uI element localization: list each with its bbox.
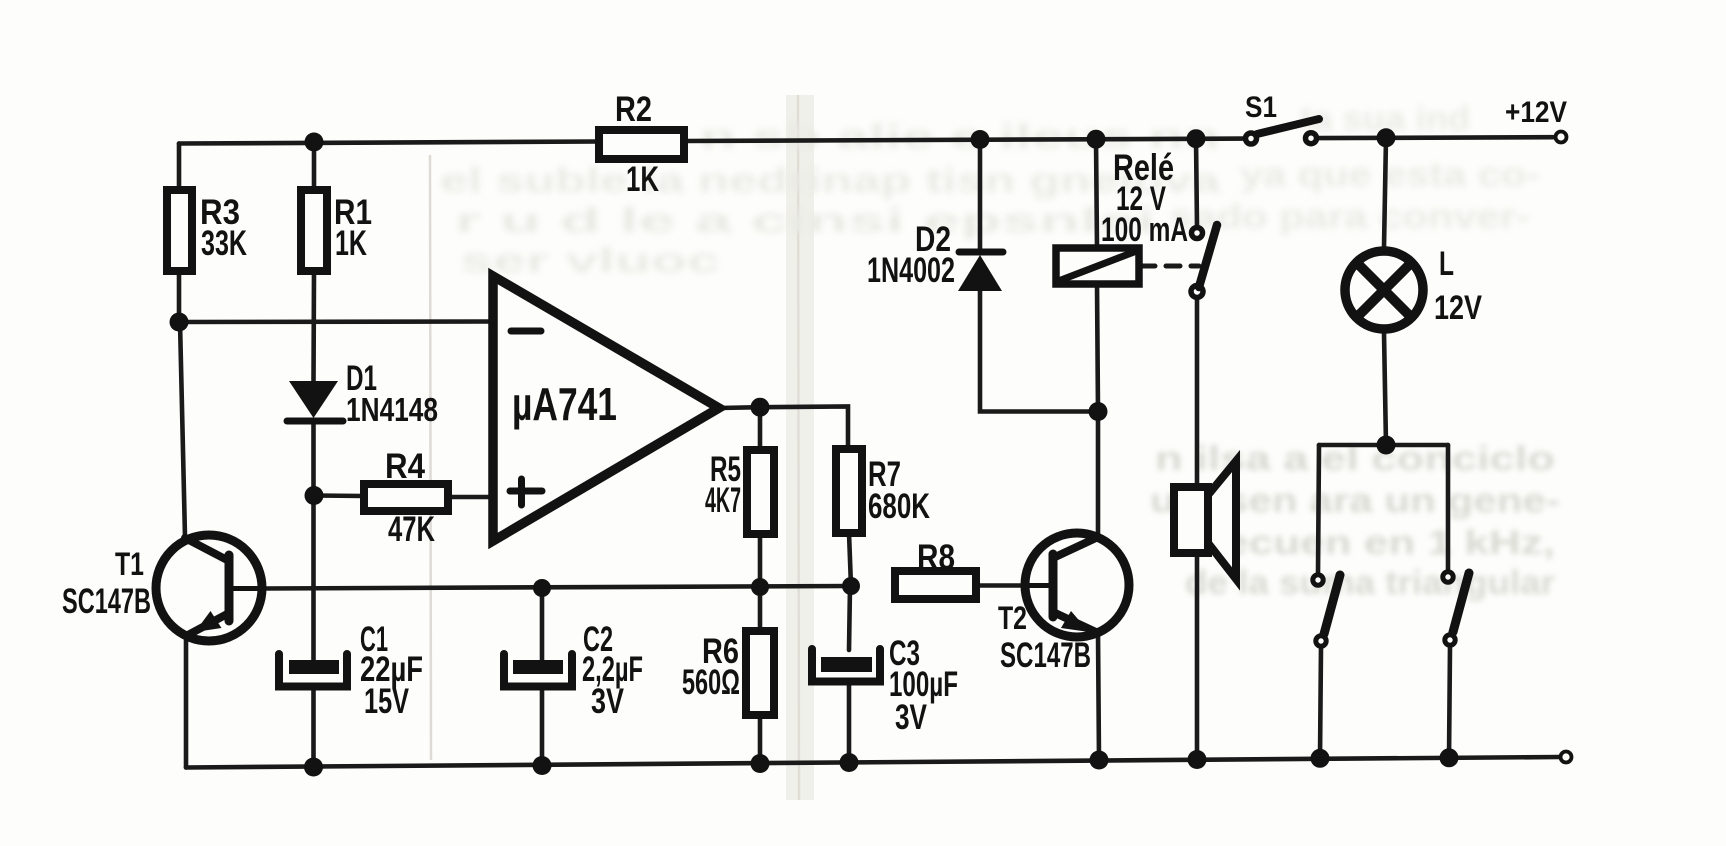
wire inverting input (junction to op-amp) — [179, 319, 493, 324]
switch S1 — [1246, 119, 1320, 144]
resistor R3 — [167, 190, 192, 271]
wire R6 bottom to bottom rail — [758, 715, 763, 764]
svg-text:o ecuen en 1 kHz,: o ecuen en 1 kHz, — [1185, 524, 1555, 562]
wire top rail right segment (S1 right contact to +12V terminal) — [1317, 135, 1553, 141]
junction dot inverting node — [170, 313, 189, 332]
svg-text:15V: 15V — [364, 682, 409, 721]
junction dot bottom rail C3 — [840, 753, 859, 772]
junction dot bottom rail left switch — [1311, 749, 1330, 768]
wire op-amp output to node — [719, 405, 760, 410]
svg-text:T2: T2 — [998, 600, 1027, 636]
wire C3 top lead — [849, 586, 850, 650]
wire left branch vertical (top rail to R3) — [177, 144, 182, 191]
svg-text:+12V: +12V — [1505, 96, 1567, 129]
svg-text:µA741: µA741 — [512, 378, 617, 430]
wire left bottom switch lower lead — [1320, 647, 1321, 758]
svg-text:r u d le a cinsi epsnlei: r u d le a cinsi epsnlei — [455, 202, 1155, 240]
svg-text:de la suma triangular: de la suma triangular — [1185, 564, 1555, 602]
transistor T2 — [1025, 533, 1129, 637]
svg-text:T1: T1 — [115, 546, 144, 582]
wire junction down to T2 collector — [1096, 412, 1101, 538]
bottom switch left — [1313, 575, 1340, 646]
svg-text:47K: 47K — [388, 510, 435, 549]
junction dot op-amp output — [751, 398, 770, 417]
wire R1 bottom to D1 anode — [311, 271, 316, 382]
wire D1 cathode to R4 junction then down to C1 — [311, 423, 316, 660]
junction dot top rail contact — [1187, 129, 1206, 148]
svg-text:560Ω: 560Ω — [682, 663, 740, 702]
capacitor C1 — [279, 654, 347, 687]
wire R5 bottom to base-line junction — [758, 534, 763, 587]
wire right bottom switch lower lead — [1449, 646, 1450, 758]
capacitor C2 — [504, 654, 572, 687]
svg-text:1K: 1K — [335, 224, 367, 263]
junction dot R4 node — [305, 486, 324, 505]
svg-text:sado para conver-: sado para conver- — [1170, 198, 1530, 236]
wire top rail left segment — [179, 142, 599, 144]
wire output node down to R5 — [758, 407, 763, 450]
wire left bottom switch upper lead — [1318, 445, 1319, 574]
resistor R2 — [599, 130, 684, 159]
wire relay coil top (top rail down) — [1096, 139, 1097, 248]
svg-text:S1: S1 — [1245, 91, 1277, 124]
svg-text:R2: R2 — [615, 90, 652, 129]
wire C1 bottom to bottom rail — [311, 687, 316, 767]
wire R4 left lead — [314, 493, 364, 498]
wire lamp branch (top rail to lamp) — [1384, 138, 1386, 247]
fold line right — [786, 95, 814, 800]
svg-text:L: L — [1439, 245, 1454, 283]
wire T2 emitter down to bottom rail — [1098, 633, 1099, 760]
wire left vertical down to T1 collector — [180, 322, 185, 537]
junction dot top rail R1 — [305, 133, 324, 152]
svg-text:33K: 33K — [201, 224, 247, 263]
svg-text:100 mA: 100 mA — [1101, 211, 1188, 249]
wire lamp bottom to switch crossbar — [1384, 333, 1386, 445]
svg-text:ya que esta co-: ya que esta co- — [1240, 156, 1540, 194]
wire C2 bottom to bottom rail — [540, 687, 545, 766]
wire R8 right lead to T2 base — [976, 583, 1053, 588]
wire relay contact top (top rail to contact) — [1196, 139, 1197, 227]
svg-text:SC147B: SC147B — [1000, 636, 1091, 675]
junction dot base line R7/R8/C3 — [842, 577, 860, 595]
wire R3 bottom to inverting-node junction — [177, 271, 182, 322]
junction dot top rail relay — [1087, 130, 1106, 149]
wire switch crossbar — [1319, 443, 1448, 448]
resistor R8 — [895, 571, 976, 599]
diode D2 — [958, 252, 1003, 291]
junction dot base line C2 — [533, 579, 551, 597]
junction dot top rail lamp — [1377, 128, 1396, 147]
svg-text:12V: 12V — [1434, 289, 1482, 327]
svg-text:1K: 1K — [626, 160, 659, 199]
lamp L — [1345, 251, 1423, 329]
wire top rail middle segment (R2 right to S1 left contact) — [684, 139, 1245, 141]
resistor R5 — [747, 450, 774, 534]
diode D1 — [287, 381, 343, 421]
junction dot bottom rail R6 — [751, 754, 770, 773]
svg-text:1N4002: 1N4002 — [867, 251, 955, 290]
speaker — [1174, 461, 1236, 579]
resistor R6 — [746, 631, 774, 715]
wire bottom rail — [186, 757, 1559, 768]
op-amp U1 uA741 — [493, 276, 719, 541]
wire output node across to R7 top corner — [760, 407, 848, 450]
junction dot bottom rail C1 — [304, 758, 323, 777]
junction dot base line R5/R6 — [751, 578, 769, 596]
wire D2 anode down then right to relay/T2 junction — [980, 291, 1098, 412]
transistor T1 — [156, 535, 262, 641]
resistor R1 — [301, 190, 327, 271]
bottom right terminal — [1561, 752, 1572, 763]
wire C2 top (base line junction down) — [540, 588, 545, 660]
wire C3 bottom to bottom rail — [847, 683, 852, 763]
junction dot lamp crossbar — [1377, 436, 1396, 455]
junction dot bottom rail C2 — [533, 756, 552, 775]
wire relay coil bottom to junction — [1097, 284, 1098, 412]
wire T1 base line across to R8 junction — [262, 586, 851, 589]
wire relay contact dashed link — [1141, 264, 1199, 269]
junction dot D2/relay/T2 — [1089, 402, 1108, 421]
fold line left — [430, 155, 431, 760]
wire D2 top (top rail down to cathode) — [978, 140, 983, 253]
junction dot bottom rail T2 — [1090, 751, 1109, 770]
wire right bottom switch upper lead — [1446, 445, 1451, 571]
wire R4 right lead to op-amp plus input — [448, 495, 493, 500]
svg-text:1N4148: 1N4148 — [346, 391, 438, 428]
junction dot top rail D2 — [971, 130, 990, 149]
resistor R7 — [836, 449, 862, 533]
svg-text:3V: 3V — [591, 682, 625, 721]
wire R7 bottom to R8 junction — [849, 533, 851, 586]
svg-text:R4: R4 — [385, 447, 425, 486]
svg-text:680K: 680K — [868, 487, 930, 526]
bottom switch right — [1443, 572, 1469, 645]
svg-text:3V: 3V — [895, 698, 927, 737]
capacitor C3 — [812, 649, 880, 682]
junction dot bottom rail speaker — [1188, 750, 1207, 769]
wire T1 emitter down to bottom rail corner — [184, 637, 189, 768]
relay contact — [1191, 225, 1217, 298]
wire R1 top (top rail to R1) — [312, 142, 317, 190]
resistor R4 — [364, 484, 448, 511]
relay coil — [1056, 248, 1139, 284]
wire R6 top lead — [758, 587, 763, 631]
svg-text:el suble la nedrinap tisn g: el suble la nedrinap tisn gneiova — [440, 162, 1222, 200]
svg-text:4K7: 4K7 — [705, 481, 741, 520]
svg-text:R8: R8 — [917, 538, 955, 577]
svg-text:SC147B: SC147B — [62, 582, 151, 621]
wire relay contact bottom through speaker to bottom rail — [1195, 298, 1200, 760]
junction dot bottom rail right switch — [1440, 748, 1459, 767]
+12V terminal — [1556, 132, 1567, 143]
